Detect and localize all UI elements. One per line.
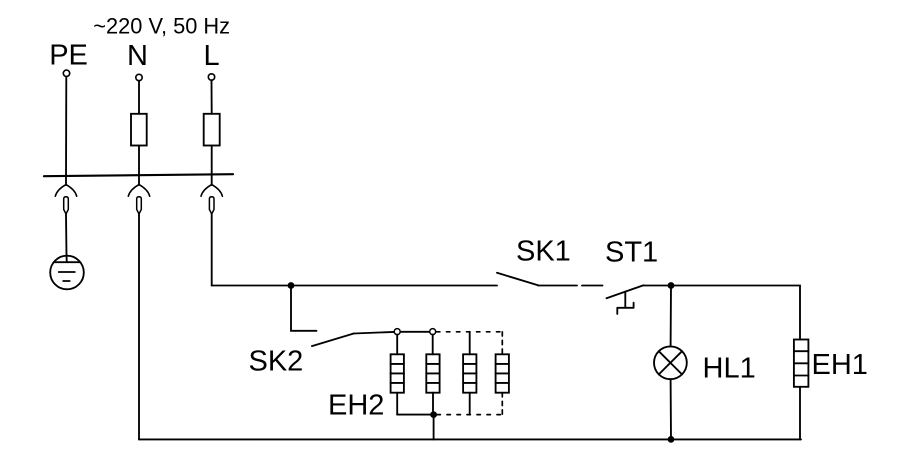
fuse FU2 (L) (204, 114, 220, 146)
node C junction (668, 436, 675, 443)
EH2 stem r4 bottom dashed (501, 393, 503, 415)
connector X1 socket L (201, 185, 222, 197)
thermal switch ST1 actuator (617, 292, 633, 314)
svg-text:SK1: SK1 (516, 236, 571, 268)
wire node B to EH1 (671, 286, 800, 340)
EH2 stem r4 top dashed (501, 332, 503, 355)
heater EH2 element 3 (463, 332, 476, 415)
wire N down to bottom (138, 214, 140, 439)
wire EH1 to bottom (799, 387, 801, 440)
terminal N (136, 74, 142, 80)
connector X1 socket PE (55, 185, 76, 197)
wire L fuse to bus (211, 146, 213, 186)
EH2 terminal circle 1 (394, 329, 400, 335)
node A junction (288, 282, 295, 289)
wire N fuse to bus (138, 146, 140, 186)
wire bottom return (139, 438, 801, 440)
fuse FU1 (N) (131, 114, 147, 146)
EH2 bottom rail (397, 414, 433, 416)
node D junction (430, 411, 437, 418)
thermal switch ST1 blade (607, 285, 644, 298)
wire L to node A (212, 285, 291, 287)
switch SK1 (497, 273, 538, 285)
svg-text:N: N (127, 40, 148, 72)
svg-text:SK2: SK2 (249, 346, 304, 378)
svg-text:ST1: ST1 (605, 237, 658, 269)
terminal PE (63, 70, 69, 76)
EH2 bottom rail dotted (437, 414, 502, 416)
wire SK1 to ST1 (538, 285, 603, 287)
wire ST1 to node B (644, 285, 672, 287)
EH2 top rail (397, 331, 433, 333)
wire L terminal to fuse (211, 80, 213, 114)
svg-text:HL1: HL1 (703, 353, 756, 385)
switch SK2 blade (312, 334, 354, 347)
connector X1 socket N (128, 185, 149, 197)
heater EH2 element 4 (496, 354, 509, 392)
earth electrode (body ground) (50, 256, 84, 290)
svg-text:~220 V, 50 Hz: ~220 V, 50 Hz (93, 14, 230, 39)
lamp HL1 (654, 346, 687, 379)
EH2 top rail dotted (437, 331, 503, 333)
connector X1 pin L (209, 197, 214, 214)
wire lamp to bottom (670, 379, 672, 439)
heater EH2 element 2 (426, 335, 439, 415)
wire node D to bottom (433, 415, 435, 440)
svg-text:L: L (204, 40, 220, 72)
connector X1 pin PE (64, 197, 69, 214)
svg-text:EH2: EH2 (328, 390, 384, 422)
terminal L (208, 74, 214, 80)
wire node A to SK1 (291, 285, 497, 287)
bus line (44, 174, 233, 176)
wire node A down to SK2 (291, 286, 317, 331)
svg-text:EH1: EH1 (812, 349, 868, 381)
heater EH2 element 1 (391, 335, 404, 415)
wire node B to lamp (670, 286, 672, 347)
heater EH1 (794, 340, 809, 387)
wire PE to earth (65, 214, 68, 262)
wire SK2 to EH2 rail (354, 332, 395, 334)
wire L down (211, 214, 213, 286)
EH2 terminal circle 2 (430, 329, 436, 335)
svg-text:PE: PE (49, 40, 88, 72)
node B junction (668, 282, 675, 289)
connector X1 pin N (137, 197, 142, 214)
wire N terminal to fuse (138, 81, 140, 114)
wire PE vertical (65, 77, 67, 186)
